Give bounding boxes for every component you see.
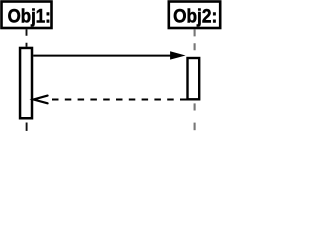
object box Obj1 [2,2,52,29]
arrowhead (filled) [170,51,186,59]
arrowhead (open) [34,96,48,104]
svg-text:Obj2:: Obj2: [173,6,217,28]
lifeline Obj2 (dash segment) [194,123,196,131]
lifeline Obj2 (dashed, lower) [194,103,196,110]
activation bar Obj2 [188,58,200,99]
lifeline Obj1 (dashed, upper) [26,29,28,46]
lifeline Obj2 (dashed, upper) [194,30,196,58]
message arrow (solid, Obj1 to Obj2) [33,55,172,57]
lifeline Obj1 (dashed, lower) [26,123,28,131]
return arrow (dashed, Obj2 to Obj1) [52,99,187,101]
object box Obj2 [169,2,220,29]
svg-text:Obj1:: Obj1: [8,6,51,28]
activation bar Obj1 [20,48,32,118]
